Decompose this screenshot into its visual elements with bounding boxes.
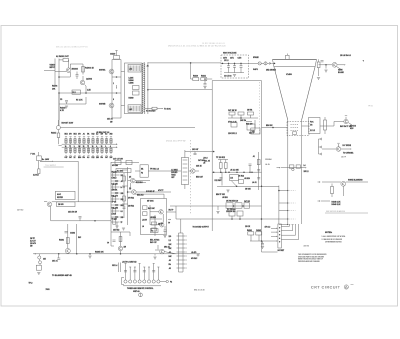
tick bbox=[92, 136, 94, 138]
transistor Q4343 bbox=[336, 147, 341, 152]
wire bbox=[38, 259, 41, 261]
resistor bbox=[66, 238, 69, 244]
svg-text:2. VALUES IN UF UNLESS: 2. VALUES IN UF UNLESS bbox=[322, 238, 343, 241]
junction bbox=[287, 190, 288, 191]
wire bbox=[89, 254, 91, 255]
wire ladder element lead bbox=[74, 138, 76, 145]
svg-text:2N3: 2N3 bbox=[121, 193, 124, 195]
wire bbox=[57, 120, 59, 126]
svg-text:HORIZ BLANKING: HORIZ BLANKING bbox=[348, 179, 363, 182]
svg-text:TP 5%: TP 5% bbox=[368, 106, 373, 108]
connector pin bbox=[166, 280, 168, 282]
tick bbox=[337, 142, 339, 144]
arrowhead bbox=[186, 239, 187, 240]
svg-text:V1 SOCKET: V1 SOCKET bbox=[146, 111, 157, 113]
resistor ladder top 6 bbox=[87, 139, 89, 143]
tick bbox=[88, 154, 90, 156]
svg-text:R4306: R4306 bbox=[52, 85, 57, 88]
wire bbox=[254, 120, 256, 128]
arrowhead bbox=[344, 64, 345, 65]
svg-text:2.2 120 5%: 2.2 120 5% bbox=[227, 209, 236, 211]
component box L4303 bbox=[128, 105, 141, 113]
resistor R4331 bbox=[201, 78, 207, 81]
triode V1A bbox=[109, 69, 114, 74]
wire bbox=[76, 72, 78, 75]
resistor mark bbox=[78, 140, 80, 142]
connector pin 5 bbox=[143, 280, 146, 283]
wire bbox=[184, 150, 186, 158]
ground bbox=[122, 228, 125, 230]
arrowhead bbox=[186, 243, 187, 244]
svg-text:120 TP: 120 TP bbox=[341, 157, 346, 159]
transformer winding bbox=[183, 167, 188, 169]
wire ladder element lead bbox=[83, 147, 85, 154]
resistor ladder top 10 bbox=[105, 139, 107, 143]
junction bbox=[234, 63, 236, 65]
svg-text:C47 1W 1K: C47 1W 1K bbox=[228, 109, 238, 112]
svg-text:C4382: C4382 bbox=[70, 232, 75, 235]
component box bbox=[57, 202, 75, 207]
wire pin lead bbox=[139, 264, 141, 280]
wire socket stub bbox=[271, 235, 277, 237]
wire stub bbox=[111, 192, 120, 194]
wire ladder element lead bbox=[83, 138, 85, 145]
svg-text:.05: .05 bbox=[169, 268, 171, 270]
wire bbox=[59, 103, 86, 105]
svg-text:C4306: C4306 bbox=[129, 82, 134, 85]
wire bbox=[228, 117, 258, 119]
svg-text:470 6.8 .05: 470 6.8 .05 bbox=[228, 121, 237, 124]
flag mark bbox=[140, 293, 142, 297]
component in neck bbox=[296, 165, 300, 168]
transistor Q4306 bbox=[132, 190, 137, 195]
wire bbox=[262, 241, 264, 244]
arrowhead bbox=[101, 155, 102, 156]
junction bbox=[261, 240, 263, 242]
resistor ladder bottom 2 bbox=[69, 148, 71, 152]
transformer winding bbox=[183, 163, 188, 165]
component box top bbox=[114, 56, 120, 60]
wire bbox=[58, 93, 60, 104]
resistor ladder top 4 bbox=[78, 139, 80, 143]
arrowhead bbox=[83, 155, 84, 156]
svg-text:V1499: V1499 bbox=[286, 73, 293, 76]
tick bbox=[153, 263, 155, 265]
svg-text:470 5%: 470 5% bbox=[304, 246, 310, 248]
capacitor HV bbox=[240, 66, 243, 67]
wire bbox=[111, 162, 139, 164]
wire socket stub bbox=[271, 227, 277, 229]
tick bbox=[101, 136, 103, 138]
wire bbox=[270, 240, 271, 242]
resistor mark bbox=[87, 140, 89, 142]
resistor bbox=[113, 173, 116, 177]
resistor bbox=[143, 206, 148, 210]
transistor Q4344 bbox=[341, 181, 346, 186]
component box trap 1 bbox=[226, 203, 233, 208]
capacitor bbox=[115, 192, 118, 193]
wire connector rung bbox=[177, 259, 186, 261]
wire ladder element lead bbox=[110, 138, 112, 145]
wire socket feed stub bbox=[279, 202, 288, 204]
wire gun electrode riser bbox=[289, 224, 291, 226]
wire ladder element lead bbox=[97, 147, 99, 154]
wire bbox=[261, 62, 264, 64]
resistor mark bbox=[110, 149, 112, 151]
svg-text:A2 R4301 C4T: A2 R4301 C4T bbox=[56, 55, 69, 58]
svg-text:8: 8 bbox=[113, 99, 114, 101]
wire bbox=[135, 170, 140, 172]
resistor mark bbox=[110, 140, 112, 142]
wire ladder element lead bbox=[92, 147, 94, 154]
wire bbox=[286, 54, 288, 56]
svg-text:2.2: 2.2 bbox=[169, 240, 171, 242]
socket pin bbox=[279, 241, 280, 242]
anode cap bbox=[286, 55, 290, 59]
svg-text:120: 120 bbox=[169, 236, 172, 238]
svg-text:CRT CIRCUIT: CRT CIRCUIT bbox=[311, 285, 341, 289]
wire bbox=[40, 160, 52, 162]
svg-text:SPARK: SPARK bbox=[253, 56, 260, 59]
svg-text:R12 R4C: R12 R4C bbox=[215, 179, 223, 182]
resistor focus divider bbox=[324, 120, 327, 130]
tick bbox=[78, 136, 80, 138]
connector bracket bbox=[122, 278, 125, 285]
wire bbox=[207, 78, 212, 80]
component box bbox=[133, 91, 140, 95]
wire ladder rail lower bbox=[62, 146, 117, 148]
connector pin 8 bbox=[157, 280, 160, 283]
svg-text:2.2 2.2: 2.2 2.2 bbox=[310, 130, 315, 132]
wire bbox=[231, 115, 233, 118]
resistor bbox=[220, 163, 223, 169]
junction bbox=[116, 76, 118, 78]
svg-text:470 2.2: 470 2.2 bbox=[265, 226, 271, 229]
wire board outline left bbox=[211, 81, 213, 231]
tick bbox=[83, 136, 85, 138]
wire bbox=[128, 180, 131, 182]
diode bar bbox=[321, 153, 323, 156]
svg-text:R4385 10K: R4385 10K bbox=[95, 250, 104, 253]
svg-text:120 1K: 120 1K bbox=[245, 226, 251, 228]
wire bbox=[148, 170, 181, 172]
resistor R4346 bbox=[331, 187, 334, 194]
resistor bbox=[115, 160, 121, 164]
junction bbox=[213, 151, 215, 153]
wire bbox=[240, 115, 242, 118]
wire bbox=[123, 285, 161, 287]
svg-text:120 120 120: 120 120 120 bbox=[226, 211, 235, 213]
junction bbox=[287, 218, 288, 219]
svg-text:120 BE4: 120 BE4 bbox=[265, 159, 272, 161]
wire faint bbox=[44, 166, 64, 168]
capacitor C4331 bbox=[204, 84, 207, 85]
capacitor bbox=[123, 207, 126, 208]
capacitor bbox=[133, 271, 136, 272]
svg-text:.05 2.2 10K: .05 2.2 10K bbox=[230, 170, 240, 172]
CRT neck left bbox=[287, 120, 289, 224]
wire socket frame right bbox=[120, 60, 122, 119]
dashed grid line bbox=[289, 218, 295, 220]
arrow out bbox=[305, 167, 306, 168]
resistor bbox=[126, 160, 132, 164]
svg-text:.05: .05 bbox=[169, 260, 171, 262]
svg-text:R4315: R4315 bbox=[51, 132, 56, 135]
resistor ladder bottom 10 bbox=[105, 148, 107, 152]
spark gap G2 bbox=[264, 62, 267, 65]
resistor bbox=[248, 232, 254, 235]
junction bbox=[272, 127, 274, 129]
svg-text:2N3 .05: 2N3 .05 bbox=[164, 247, 170, 249]
svg-text:6GH8A: 6GH8A bbox=[99, 69, 106, 72]
tick bbox=[143, 266, 145, 268]
wire bbox=[40, 160, 78, 162]
wire grid feed bbox=[262, 127, 288, 129]
wire gun electrode bbox=[281, 230, 292, 232]
connector pin 7 bbox=[152, 280, 155, 283]
component in gun bbox=[293, 132, 297, 135]
component box bbox=[231, 123, 237, 128]
ground bbox=[37, 272, 40, 274]
capacitor bbox=[65, 232, 68, 233]
svg-text:C5: C5 bbox=[60, 99, 62, 101]
ground bbox=[153, 257, 156, 259]
bus end arrow bbox=[34, 253, 35, 255]
wire bbox=[38, 254, 40, 256]
svg-text:33K 1K: 33K 1K bbox=[196, 166, 203, 168]
wire connector strip right bbox=[182, 233, 184, 272]
junction bbox=[58, 92, 60, 94]
svg-text:BE4 C47: BE4 C47 bbox=[196, 176, 203, 179]
wire bbox=[318, 71, 320, 76]
wire bbox=[112, 117, 121, 119]
grid line dashed bbox=[291, 130, 299, 132]
junction bbox=[228, 171, 230, 173]
ground bbox=[88, 256, 91, 258]
sound IF box bbox=[141, 199, 167, 235]
capacitor bbox=[113, 240, 116, 241]
tick bbox=[97, 154, 99, 156]
wire bbox=[120, 232, 122, 246]
resistor mark bbox=[105, 149, 107, 151]
wire bbox=[184, 184, 186, 189]
wire bbox=[154, 254, 156, 256]
coil L4302 winding bbox=[129, 66, 140, 72]
dashed grid line bbox=[289, 202, 295, 204]
wire bbox=[122, 169, 128, 171]
wire bbox=[320, 125, 334, 127]
capacitor bbox=[57, 258, 60, 259]
wire bbox=[277, 167, 280, 169]
svg-text:.05 BE4 C47 6.8: .05 BE4 C47 6.8 bbox=[96, 131, 109, 134]
wire bbox=[70, 63, 83, 65]
wire diagonal bbox=[337, 67, 343, 71]
wire bbox=[111, 245, 114, 247]
wire ladder element lead bbox=[79, 147, 81, 154]
svg-text:.05 R12: .05 R12 bbox=[238, 176, 244, 178]
resistor bbox=[248, 112, 254, 115]
svg-text:KEYER: KEYER bbox=[57, 197, 64, 199]
arrowhead bbox=[52, 161, 53, 162]
wire bbox=[250, 240, 262, 242]
wire bbox=[122, 203, 128, 205]
arrowhead bbox=[186, 247, 187, 248]
wire bbox=[334, 121, 344, 123]
capacitor bbox=[194, 153, 197, 154]
wire bbox=[163, 194, 165, 198]
small circle bbox=[292, 168, 294, 170]
svg-text:R-Y DRIVE: R-Y DRIVE bbox=[343, 145, 352, 147]
component in neck bbox=[289, 165, 294, 168]
wire bbox=[331, 194, 333, 198]
wire bbox=[55, 71, 66, 73]
wire bbox=[179, 271, 184, 273]
wire bbox=[267, 62, 269, 64]
junction bbox=[85, 92, 87, 94]
wire bbox=[318, 200, 320, 202]
svg-text:1K 5% BE4 120: 1K 5% BE4 120 bbox=[226, 200, 238, 203]
wire bbox=[225, 160, 227, 163]
svg-text:R4361: R4361 bbox=[247, 229, 252, 232]
component box bbox=[133, 86, 140, 90]
connector pin 2 bbox=[129, 280, 132, 283]
tick bbox=[157, 266, 159, 268]
dashed grid line bbox=[289, 210, 295, 212]
svg-text:C4 C5 C6: C4 C5 C6 bbox=[224, 75, 231, 78]
svg-text:1W 10K: 1W 10K bbox=[112, 189, 119, 191]
wire bbox=[120, 251, 122, 254]
svg-text:470 TP: 470 TP bbox=[158, 189, 164, 192]
arrow in bbox=[279, 167, 280, 168]
diode arrow bbox=[319, 200, 320, 202]
wire bbox=[228, 63, 230, 65]
wire bbox=[180, 219, 182, 233]
wire gun electrode riser bbox=[292, 224, 294, 231]
wire bbox=[150, 224, 160, 226]
component box bbox=[150, 229, 158, 233]
resistor bbox=[238, 112, 244, 115]
wire bbox=[82, 64, 84, 75]
wire bbox=[258, 235, 260, 241]
dashed grid line bbox=[289, 224, 295, 226]
coil L4303 winding bbox=[129, 106, 140, 112]
wire socket feed stub bbox=[279, 190, 288, 192]
resistor bbox=[256, 232, 262, 235]
tick bbox=[345, 115, 347, 117]
junction bbox=[204, 78, 206, 80]
resistor mark bbox=[83, 140, 85, 142]
wire trap row bbox=[170, 205, 262, 207]
wire ladder element lead bbox=[97, 138, 99, 145]
wire ladder element lead bbox=[106, 147, 108, 154]
svg-text:Q4302: Q4302 bbox=[86, 78, 93, 81]
tick bbox=[87, 136, 89, 138]
wire bbox=[190, 63, 192, 79]
wire bbox=[194, 152, 196, 154]
capacitor bbox=[220, 178, 223, 179]
wire bbox=[324, 117, 326, 120]
wire bbox=[120, 263, 122, 273]
wire bbox=[240, 63, 242, 65]
transistor Q4342 bbox=[344, 119, 348, 123]
svg-text:2N3394: 2N3394 bbox=[72, 68, 78, 71]
transistor Q4301 bbox=[66, 68, 71, 73]
wire stub bbox=[111, 210, 120, 212]
tick bbox=[105, 136, 107, 138]
wire video input bbox=[44, 70, 55, 72]
transformer winding bbox=[183, 159, 188, 161]
wire connector rung bbox=[177, 263, 186, 265]
wire ladder element lead bbox=[65, 147, 67, 154]
wire bbox=[204, 79, 206, 84]
resistor ladder bottom 7 bbox=[92, 148, 94, 152]
wire bbox=[318, 139, 320, 154]
dashed line bbox=[258, 82, 260, 134]
capacitor bbox=[115, 216, 118, 217]
wire bbox=[157, 245, 159, 249]
resistor mark bbox=[96, 140, 98, 142]
svg-text:Q6: Q6 bbox=[129, 188, 131, 190]
arrowhead bbox=[116, 88, 117, 89]
wire bbox=[59, 92, 112, 94]
wire bbox=[135, 180, 150, 182]
resistor R4312 bbox=[57, 133, 60, 138]
capacitor C4341 bbox=[321, 61, 324, 62]
wire bbox=[319, 138, 321, 140]
diode bar bbox=[321, 138, 323, 141]
wire bbox=[218, 159, 228, 161]
wire bbox=[220, 169, 222, 173]
wire bbox=[217, 185, 279, 187]
svg-text:120 1W 2.2: 120 1W 2.2 bbox=[228, 133, 237, 135]
resistor bbox=[113, 220, 116, 224]
resistor R4341 bbox=[317, 62, 320, 68]
svg-text:M1: M1 bbox=[141, 169, 143, 171]
wire bbox=[342, 186, 344, 196]
high voltage cage (dashed) bbox=[221, 55, 249, 78]
test point cross bbox=[197, 254, 200, 257]
wire bbox=[66, 102, 68, 104]
svg-text:TP R4C 2.2: TP R4C 2.2 bbox=[150, 168, 159, 171]
arrowhead bbox=[186, 235, 187, 236]
svg-text:.05: .05 bbox=[121, 181, 123, 183]
wire bbox=[331, 184, 333, 187]
wire ladder element lead bbox=[70, 147, 72, 154]
svg-text:TO SOUND OUTPUT: TO SOUND OUTPUT bbox=[193, 227, 210, 229]
electron gun dashed box bbox=[287, 122, 309, 136]
tick bbox=[125, 263, 127, 265]
svg-text:6.8 2.2: 6.8 2.2 bbox=[112, 177, 117, 179]
svg-text:C47 C47 1W: C47 C47 1W bbox=[113, 157, 123, 160]
wire bbox=[318, 181, 320, 183]
wire ladder element lead bbox=[110, 147, 112, 154]
svg-text:TUNER AND REMOTE CONTROL: TUNER AND REMOTE CONTROL bbox=[127, 287, 153, 290]
transformer winding bbox=[183, 175, 188, 177]
junction bbox=[225, 171, 227, 173]
wire board outline right bbox=[261, 81, 263, 252]
arrowhead bbox=[92, 155, 93, 156]
wire ladder element lead bbox=[70, 138, 72, 145]
capacitor bbox=[164, 230, 167, 231]
flag symbol bbox=[139, 293, 143, 297]
wire rail bbox=[176, 218, 279, 220]
svg-text:DL1: DL1 bbox=[73, 92, 76, 94]
resistor mark bbox=[74, 140, 76, 142]
CRT V1499 envelope bbox=[273, 59, 317, 120]
capacitor bbox=[257, 170, 260, 171]
ground bbox=[226, 190, 229, 192]
svg-text:R4331: R4331 bbox=[201, 75, 206, 78]
